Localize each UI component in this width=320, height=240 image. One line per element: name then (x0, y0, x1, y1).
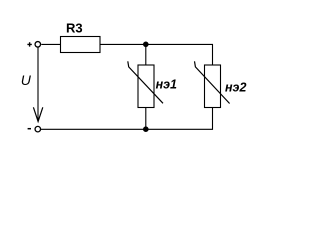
nonlinear element nE2 body (205, 65, 221, 108)
wire nE2 to bottom corner and bottom node (41, 108, 213, 130)
wire top node: + terminal to R3 (41, 43, 60, 45)
wire branch 1 top (145, 44, 147, 65)
nE1 diagonal stroke with tail (128, 61, 163, 103)
plus sign (27, 42, 31, 46)
minus sign (28, 128, 31, 130)
svg-text:R3: R3 (66, 20, 83, 35)
arrowhead (33, 107, 42, 121)
nE2 diagonal stroke with tail (195, 61, 230, 103)
wire branch 1 bottom (145, 108, 147, 130)
resistor R3 (61, 37, 101, 53)
terminal + (35, 42, 41, 48)
junction node bottom (143, 126, 149, 132)
wire top node: R3 to right corner, down to nE2 (100, 44, 213, 65)
nonlinear element nE1 body (138, 65, 154, 108)
source arrow U (37, 48, 39, 121)
svg-text:U: U (21, 72, 32, 88)
junction node top (143, 42, 149, 48)
svg-text:нэ2: нэ2 (225, 81, 246, 95)
terminal - (35, 126, 41, 132)
svg-text:нэ1: нэ1 (156, 78, 177, 92)
